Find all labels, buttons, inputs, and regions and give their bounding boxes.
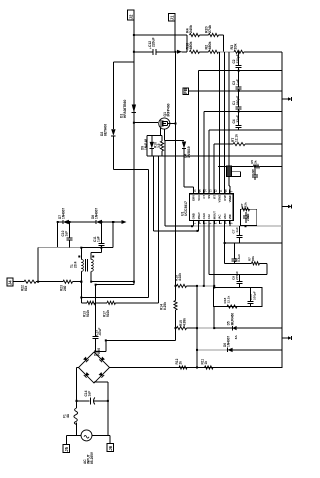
wire [187,327,233,329]
wire drain [134,122,158,124]
capacitor C15 [247,288,256,307]
svg-text:8.25k: 8.25k [163,302,167,310]
ground bus right [281,52,283,368]
svg-text:IAC: IAC [218,214,222,219]
wire vsense lower [81,302,87,304]
wire pin15 [198,71,200,190]
wire [237,327,282,329]
wire pin10 [224,52,226,190]
svg-text:FB: FB [183,88,188,94]
svg-text:CAI: CAI [207,214,211,219]
svg-text:J5: J5 [64,446,69,451]
inductor L1 line [112,62,114,170]
svg-text:1N4007: 1N4007 [62,208,66,219]
ground 3 [282,336,292,340]
wire [109,435,111,443]
resistor R19 [175,273,187,288]
wire bridge left [77,368,79,409]
svg-text:3.9: 3.9 [157,143,161,148]
wire source down [163,129,165,141]
svg-text:3.3uF: 3.3uF [237,254,241,262]
wire [219,51,235,53]
resistor R5 [250,160,260,174]
wire [13,281,24,283]
svg-text:J1: J1 [169,15,174,20]
svg-text:100pF: 100pF [253,291,257,300]
wire pin1 route [165,141,282,227]
ground 2 [282,204,292,208]
svg-text:480k: 480k [208,42,212,50]
wire pin12 [213,144,215,190]
port J5 [63,444,69,452]
resistor R16 [186,42,200,54]
diode D4 [182,142,191,159]
wire pin11 [218,52,220,190]
capacitor C11 [93,222,104,248]
svg-text:J6: J6 [108,445,113,450]
wire [200,51,209,53]
wire C14 row [77,400,108,402]
svg-text:90k: 90k [251,256,255,261]
wire rung FB [189,90,282,92]
wire T1 left top [80,248,82,260]
wire pin14 [203,111,205,189]
svg-text:910k: 910k [106,310,110,317]
wire [175,310,177,340]
wire pin gnd [196,285,198,368]
wire [244,51,282,53]
U1 pins [192,189,234,224]
svg-text:2k: 2k [254,160,258,164]
IC U1 UCC3817 body [189,194,233,221]
svg-text:VCC: VCC [197,195,201,201]
wire bridge right [110,367,283,369]
svg-text:22k: 22k [244,202,248,207]
resistor box RB [240,202,257,226]
wire cluster left [186,35,188,52]
svg-text:274k: 274k [208,25,212,33]
svg-text:OVP: OVP [223,195,227,201]
diode D8 [91,208,102,225]
diode D6 [223,336,233,352]
node boost output bus [133,35,135,285]
svg-text:MOUT: MOUT [212,211,216,220]
resistor R22 [21,280,37,291]
fuse F1 [63,408,78,424]
wire pin3 down [203,224,205,287]
wire T1 right bottom [90,271,134,282]
svg-text:1N4148: 1N4148 [144,139,148,150]
wire gray rail [38,247,113,249]
transformer T1 [70,256,94,272]
wire [174,21,177,124]
wire rung [225,224,282,243]
wire [219,35,224,52]
svg-text:CAO: CAO [202,212,206,219]
svg-text:UCC3817: UCC3817 [184,201,188,216]
svg-text:2.2uF: 2.2uF [246,213,250,221]
svg-text:.47uF: .47uF [98,328,102,336]
svg-text:IRFP460: IRFP460 [167,103,171,116]
wire junction [76,400,78,402]
capacitor C8 [232,271,243,288]
wire corner [57,222,59,248]
resistor R4 [186,25,200,37]
wire [281,367,283,370]
resistor R3 [230,44,244,54]
wire R15 row [175,327,177,329]
wire [95,302,107,304]
wire T1 right top [91,248,101,260]
capacitor C13 [93,285,103,352]
wire vsense route [116,156,159,303]
junction [37,248,39,283]
diode D1 [120,100,137,118]
capacitor C1 [232,91,242,112]
svg-text:HFA08TB60: HFA08TB60 [123,100,127,118]
svg-text:910k: 910k [86,310,90,317]
svg-text:20:4: 20:4 [73,261,77,268]
wire pin9b [229,224,231,226]
wire [36,281,63,283]
wire rung [209,129,282,131]
wire drain right [168,121,176,125]
port FB [183,88,188,95]
svg-text:8ETH06: 8ETH06 [104,124,108,136]
wire [65,435,67,444]
svg-text:VREF: VREF [228,195,232,203]
wire pin16 [184,149,193,190]
svg-text:1uF: 1uF [88,391,92,397]
bridge D10 [79,348,110,383]
resistor R14 [160,301,178,311]
svg-text:PKLT: PKLT [197,212,201,219]
svg-text:240: 240 [63,285,67,291]
ground 1 [282,97,292,101]
connector JP1 (current sense) [226,166,231,177]
wire rail VCC top [134,34,187,36]
wire VIN vertical [175,124,177,301]
resistor R10 [154,141,164,151]
wire [233,349,282,351]
capacitor C4 [232,111,242,129]
AC source V1 [81,430,92,441]
svg-text:.1uF: .1uF [235,227,239,233]
svg-text:RT: RT [212,195,216,199]
wire rung [199,70,282,72]
wire source row [164,140,184,142]
capacitor C14 [84,390,95,404]
svg-text:MUR460: MUR460 [230,313,234,326]
wire [76,422,78,435]
wire loop [231,172,240,177]
resistor R7 [248,256,260,265]
svg-text:J4: J4 [8,280,13,285]
wire D7 rail [58,221,122,223]
port J6 [107,443,114,451]
wire vsense upper [80,297,148,299]
label AC input [83,451,94,464]
svg-text:CT: CT [202,195,206,199]
diode D7 [58,208,69,225]
port J1 VCC [169,14,175,22]
svg-text:2k: 2k [179,361,183,365]
svg-text:220pF: 220pF [236,54,240,63]
wire [213,224,215,328]
resistor RT 12.1k [231,134,245,146]
resistor R23 [60,280,73,291]
svg-text:1uF: 1uF [236,79,240,85]
wire rung source [147,155,282,157]
resistor R17 [103,301,116,317]
svg-text:240k: 240k [189,25,193,33]
resistor R2 [205,42,219,54]
svg-text:GND: GND [192,213,196,219]
svg-text:PB86: PB86 [97,348,101,356]
wire pin2 route [154,156,199,231]
wire [182,51,188,53]
wire AC left row [66,434,81,436]
svg-text:20k: 20k [234,44,238,50]
resistor R15 [177,318,187,330]
svg-text:VAO: VAO [223,213,227,220]
wire IAC row [106,339,176,341]
svg-text:81k: 81k [24,285,28,291]
box soft-start network [214,288,263,307]
wire [183,148,185,150]
wire boost corner [96,284,134,286]
wire rail C12 row [134,51,176,53]
transistor Q1 [159,103,171,129]
svg-text:VFF: VFF [228,214,232,220]
svg-text:12.1k: 12.1k [227,295,231,303]
svg-text:1uF: 1uF [97,236,101,242]
wire D6 row [196,349,228,351]
wire R19 row [176,285,177,287]
wire pin13 [208,130,210,190]
wire pin9 [228,52,231,190]
svg-text:12.1k: 12.1k [235,134,239,142]
svg-text:DRV: DRV [192,195,196,201]
wire [187,285,215,287]
svg-text:1N4007: 1N4007 [226,336,230,347]
net arrow GT [122,220,127,224]
svg-text:4.99k: 4.99k [183,318,187,326]
port J2 VOUT [128,10,135,20]
resistor R12 [175,358,187,369]
resistor R11 [201,359,214,369]
svg-text:J2: J2 [129,14,134,19]
svg-text:270pF: 270pF [235,271,239,280]
diode D5 [227,313,238,340]
wire bridge bottom [94,382,108,436]
svg-text:VSNS: VSNS [218,195,222,203]
capacitor C3 [232,71,242,91]
svg-text:2W: 2W [251,169,255,174]
wire bias link [112,222,114,248]
capacitor C10b [61,222,73,248]
diode D9 [141,139,155,150]
U1 label [181,201,189,216]
svg-text:4A: 4A [66,413,70,418]
wire bridge top [94,351,96,353]
wire gate [147,128,162,136]
wire rung RT row [214,143,282,145]
svg-text:SS: SS [207,195,211,199]
capacitor C9 [232,243,242,263]
wire rung [218,165,282,167]
svg-text:85-265V: 85-265V [90,451,94,464]
capacitor C7 [232,226,243,243]
wire T1 left bottom [80,271,82,303]
net arrow VCC [177,50,182,54]
svg-text:1N4007: 1N4007 [95,208,99,219]
wire [161,151,163,156]
wire L1 branch [113,61,133,63]
resistor R18 [223,295,237,308]
wire rung [204,110,282,112]
wire rung [224,242,267,263]
resistor R13 [83,301,96,317]
svg-text:4.02k: 4.02k [178,273,182,281]
gate loop [147,135,162,156]
wire [96,340,106,351]
wire AC right row [92,434,110,436]
wire D2 route [113,169,148,297]
svg-text:560pF: 560pF [236,96,240,105]
diode D2 [100,124,116,136]
capacitor C12 [148,37,156,54]
wire [151,135,153,156]
svg-text:220uF: 220uF [151,37,155,47]
port J4 [7,278,13,286]
resistor R20 [205,25,219,37]
capacitor C5 [252,166,258,180]
wire [200,34,209,36]
wire rung [209,224,267,274]
capacitor C2 [232,52,242,71]
wire [133,20,135,35]
svg-text:1k: 1k [204,361,208,365]
svg-text:480k: 480k [189,42,193,50]
svg-text:.33uF: .33uF [236,115,240,123]
svg-text:1uF: 1uF [64,231,68,237]
svg-text:1N5819: 1N5819 [187,146,191,158]
wire [73,281,83,283]
